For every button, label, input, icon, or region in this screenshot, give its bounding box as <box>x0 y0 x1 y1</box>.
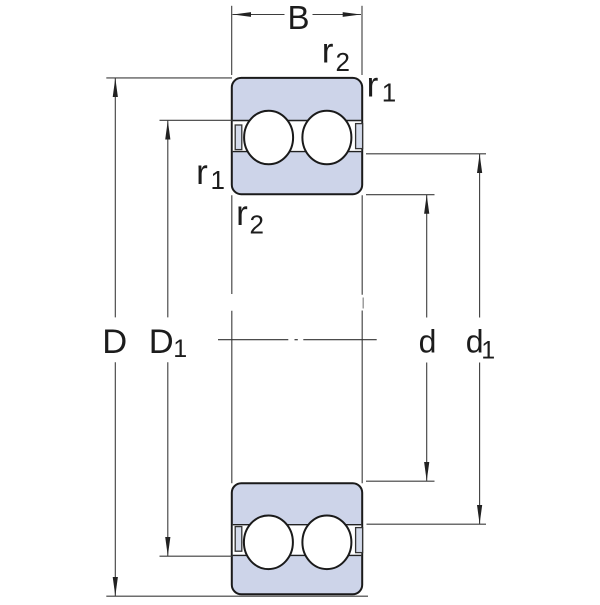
svg-text:r: r <box>236 194 248 233</box>
D extension line bottom <box>106 595 368 597</box>
d1 arrow up <box>477 154 482 173</box>
watermark letter over right face line <box>355 295 366 311</box>
B arrow right <box>343 12 361 17</box>
inner ring shoulder line top <box>233 151 361 153</box>
D1 dimension line <box>167 121 169 318</box>
recess band top (white gap between rings) <box>233 121 361 151</box>
d1 dimension line <box>479 154 481 318</box>
cage segment top right <box>356 124 363 149</box>
D1 arrow down <box>165 537 170 556</box>
D1 extension line bottom <box>160 555 233 557</box>
D arrow down <box>113 577 118 596</box>
d extension line top <box>366 194 435 196</box>
watermark letter over left face line <box>226 294 238 311</box>
d arrow up <box>424 195 429 214</box>
outer ring shoulder line bottom <box>233 554 361 556</box>
svg-text:r: r <box>322 32 334 71</box>
D1 extension line top <box>160 119 233 121</box>
ball 4 (bottom row right) <box>302 516 351 570</box>
svg-text:B: B <box>287 0 309 36</box>
svg-text:1: 1 <box>173 335 187 363</box>
D extension line top <box>106 77 232 79</box>
recess band bottom <box>233 525 361 554</box>
svg-text:1: 1 <box>382 78 396 108</box>
svg-text:d: d <box>419 324 437 360</box>
svg-text:D: D <box>102 323 127 361</box>
D dimension line <box>114 78 116 317</box>
outer ring section top (bearing upper half) <box>232 78 362 194</box>
d arrow down <box>424 462 429 481</box>
B extension line left <box>231 6 233 75</box>
cage segment top left <box>235 125 242 150</box>
svg-text:r: r <box>367 66 379 105</box>
svg-text:1: 1 <box>481 336 495 364</box>
B extension line right <box>361 6 363 75</box>
svg-text:D: D <box>149 323 174 361</box>
D1 arrow up <box>165 121 170 140</box>
ball 3 (bottom row left) <box>244 516 293 570</box>
svg-text:2: 2 <box>336 47 350 77</box>
cage segment bottom right <box>356 528 363 553</box>
left face line connecting sections <box>231 195 233 483</box>
outer ring shoulder line top <box>233 120 361 122</box>
inner ring section bottom (bearing lower half) <box>232 483 362 594</box>
ball 2 (top row right) <box>302 111 351 165</box>
d1 arrow down <box>477 505 482 524</box>
svg-text:r: r <box>196 153 208 192</box>
svg-text:2: 2 <box>250 209 264 239</box>
right face line connecting sections <box>361 195 363 483</box>
d1 extension line bottom <box>367 523 487 525</box>
ball 1 (top row left) <box>244 111 293 165</box>
d1 extension line top <box>366 153 486 155</box>
watermark stem remnant right <box>362 298 364 309</box>
svg-text:1: 1 <box>211 165 225 195</box>
B dimension line <box>233 14 285 16</box>
D arrow up <box>113 78 118 97</box>
B arrow left <box>233 12 251 17</box>
d dimension line <box>426 195 428 318</box>
d extension line bottom <box>366 480 435 482</box>
inner ring shoulder line bottom <box>233 524 361 526</box>
cage segment bottom left <box>235 527 242 552</box>
centerline (dash-dot axis) <box>218 339 288 341</box>
